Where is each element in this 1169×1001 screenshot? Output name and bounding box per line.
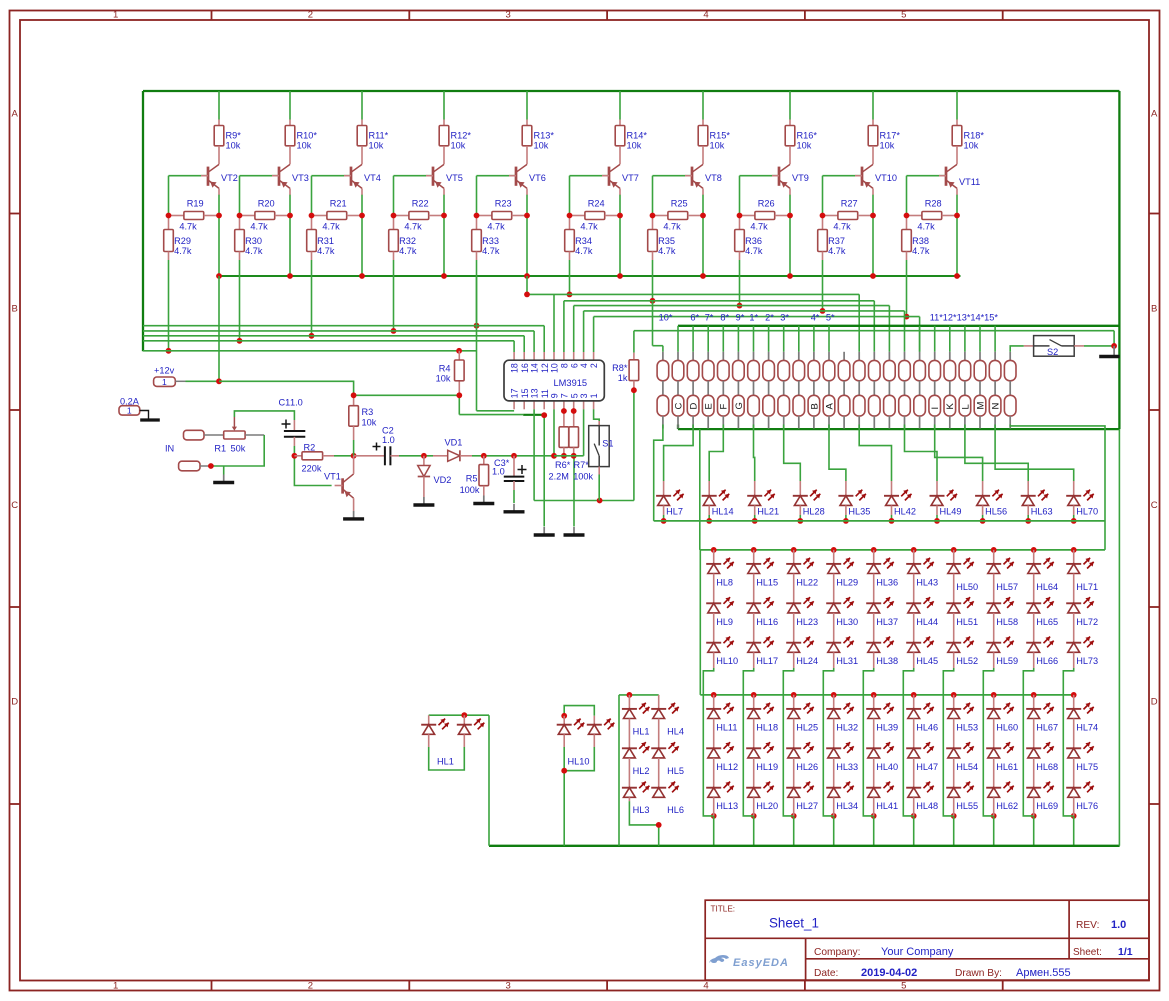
resistor network column 15 — [869, 352, 881, 429]
wire — [458, 351, 460, 396]
svg-text:13: 13 — [530, 388, 540, 398]
wire — [619, 695, 659, 846]
svg-text:2019-04-02: 2019-04-02 — [861, 967, 917, 979]
junction — [661, 518, 667, 524]
svg-text:10k: 10k — [534, 141, 549, 151]
svg-text:HL13: HL13 — [716, 801, 738, 811]
wire — [186, 380, 220, 382]
svg-text:4: 4 — [579, 363, 589, 368]
wire — [905, 425, 938, 482]
svg-text:10k: 10k — [362, 418, 377, 428]
svg-text:R35: R35 — [658, 236, 675, 246]
svg-text:R37: R37 — [828, 236, 845, 246]
svg-text:HL62: HL62 — [996, 801, 1018, 811]
junction — [351, 453, 357, 459]
LED HL51 — [946, 574, 978, 627]
wire — [652, 260, 654, 301]
svg-text:C: C — [673, 403, 684, 410]
svg-text:HL12: HL12 — [716, 762, 738, 772]
LED HL60 — [986, 695, 1018, 733]
svg-text:1: 1 — [589, 393, 599, 398]
wire — [664, 425, 694, 482]
svg-text:Date:: Date: — [814, 968, 838, 979]
svg-text:D: D — [11, 697, 18, 708]
junction — [166, 348, 172, 354]
resistor network column 16 — [884, 352, 896, 429]
svg-text:4.7k: 4.7k — [833, 222, 851, 232]
resistor network column 11 — [808, 352, 820, 429]
ground — [513, 504, 515, 512]
resistor R12 — [439, 120, 471, 165]
LED HL23 — [786, 574, 818, 627]
svg-text:4.7k: 4.7k — [580, 222, 598, 232]
svg-text:9: 9 — [550, 393, 560, 398]
wire — [1023, 550, 1033, 816]
svg-text:HL46: HL46 — [916, 722, 938, 732]
LED HL22 — [786, 550, 818, 588]
wire — [822, 260, 824, 311]
transistor VT9 — [772, 164, 809, 194]
wire — [143, 91, 1119, 429]
svg-text:6: 6 — [569, 363, 579, 368]
svg-text:4.7k: 4.7k — [174, 246, 192, 256]
svg-text:10k: 10k — [964, 141, 979, 151]
svg-text:HL65: HL65 — [1036, 617, 1058, 627]
svg-text:17: 17 — [510, 388, 520, 398]
LED HL71 — [1066, 550, 1098, 592]
junction — [1071, 547, 1077, 819]
LED HL20 — [746, 758, 778, 811]
wire — [311, 260, 313, 336]
junction — [820, 308, 826, 314]
svg-text:Sheet:: Sheet: — [1073, 947, 1102, 958]
resistor R2 — [294, 442, 334, 473]
svg-text:+12v: +12v — [154, 366, 175, 376]
resistor network column 23 — [989, 352, 1001, 429]
wire — [312, 91, 363, 276]
wire — [294, 446, 331, 486]
resistor network column 14 — [853, 352, 865, 429]
svg-text:1.0: 1.0 — [290, 398, 303, 408]
LED HL32 — [826, 695, 858, 733]
capacitor C1 — [279, 398, 306, 447]
LED HL13 — [706, 758, 738, 811]
svg-text:R22: R22 — [412, 198, 429, 208]
svg-text:HL21: HL21 — [757, 507, 779, 517]
svg-text:VT5: VT5 — [446, 173, 463, 183]
svg-text:R11*: R11* — [369, 131, 389, 141]
svg-text:5: 5 — [901, 981, 906, 992]
LED HL21 — [747, 481, 779, 517]
wire — [906, 260, 908, 317]
svg-text:HL40: HL40 — [876, 762, 898, 772]
junction — [951, 547, 957, 819]
LED HL8 — [706, 550, 734, 588]
resistor R13 — [522, 120, 554, 165]
svg-text:HL35: HL35 — [848, 507, 870, 517]
resistor network column 5 — [718, 352, 730, 429]
resistor R25 — [653, 198, 704, 231]
LED HL10 — [557, 716, 585, 747]
svg-text:R24: R24 — [588, 198, 605, 208]
resistor R22 — [394, 198, 445, 231]
svg-text:VT3: VT3 — [292, 173, 309, 183]
svg-text:HL75: HL75 — [1076, 762, 1098, 772]
svg-text:4.7k: 4.7k — [245, 246, 263, 256]
svg-text:REV:: REV: — [1076, 920, 1099, 931]
transistor VT5 — [426, 164, 463, 194]
resistor R27 — [823, 198, 874, 231]
svg-text:HL50: HL50 — [956, 582, 978, 592]
svg-text:R21: R21 — [330, 198, 347, 208]
potentiometer R1 — [214, 417, 264, 454]
svg-text:VT10: VT10 — [875, 173, 897, 183]
ground — [223, 475, 225, 483]
wire — [859, 425, 891, 482]
svg-text:4.7k: 4.7k — [917, 222, 935, 232]
resistor R14 — [615, 120, 647, 165]
wire — [743, 550, 753, 816]
ground — [543, 527, 545, 535]
wire — [564, 409, 574, 411]
svg-text:HL55: HL55 — [956, 801, 978, 811]
LED HL55 — [946, 758, 978, 811]
resistor R28 — [907, 198, 958, 231]
resistor R20 — [240, 198, 291, 231]
svg-text:3*: 3* — [780, 313, 789, 323]
wire — [353, 440, 355, 456]
resistor network column 12 — [823, 352, 835, 429]
svg-text:HL42: HL42 — [894, 507, 916, 517]
svg-text:HL9: HL9 — [716, 617, 733, 627]
svg-text:HL38: HL38 — [876, 656, 898, 666]
resistor network column 1 — [657, 352, 669, 429]
svg-text:B: B — [809, 403, 820, 409]
wire — [739, 260, 741, 306]
wire — [754, 515, 756, 521]
svg-text:10k: 10k — [297, 141, 312, 151]
svg-text:HL19: HL19 — [756, 762, 778, 772]
svg-text:4.7k: 4.7k — [322, 222, 340, 232]
wire — [936, 515, 938, 521]
resistor network column 3 — [687, 352, 699, 429]
svg-text:HL57: HL57 — [996, 582, 1018, 592]
resistor R9 — [214, 120, 241, 165]
wire — [634, 331, 1114, 501]
svg-text:3: 3 — [506, 10, 511, 21]
junction — [650, 298, 656, 304]
svg-text:4.7k: 4.7k — [663, 222, 681, 232]
junction — [843, 518, 849, 524]
svg-text:14: 14 — [530, 363, 540, 373]
svg-text:R38: R38 — [912, 236, 929, 246]
svg-text:1: 1 — [162, 377, 167, 387]
svg-text:4.7k: 4.7k — [750, 222, 768, 232]
svg-text:HL5: HL5 — [667, 766, 684, 776]
svg-text:R33: R33 — [482, 236, 499, 246]
svg-text:5: 5 — [569, 393, 579, 398]
LED HL59 — [986, 613, 1018, 666]
svg-text:F: F — [719, 404, 730, 410]
junction — [309, 213, 365, 279]
fuse 0.2A — [119, 396, 160, 420]
LED HL39 — [866, 695, 898, 733]
wire — [1073, 515, 1075, 521]
svg-text:R29: R29 — [174, 236, 191, 246]
svg-text:A: A — [12, 109, 19, 120]
junction — [391, 213, 447, 279]
svg-text:HL45: HL45 — [916, 656, 938, 666]
svg-text:18: 18 — [510, 363, 520, 373]
LED HL2 — [622, 719, 650, 776]
junction — [456, 348, 462, 354]
svg-text:HL60: HL60 — [996, 722, 1018, 732]
resistor R32 — [389, 216, 417, 261]
LED HL57 — [986, 550, 1018, 592]
svg-text:100k: 100k — [573, 472, 593, 482]
resistor R36 — [735, 216, 763, 261]
junction — [421, 453, 427, 459]
svg-text:VD1: VD1 — [445, 438, 463, 448]
wire — [399, 455, 433, 457]
wire — [393, 260, 395, 331]
wire — [903, 550, 913, 816]
svg-text:HL28: HL28 — [803, 507, 825, 517]
wire — [1010, 346, 1114, 352]
svg-text:HL22: HL22 — [796, 577, 818, 587]
svg-text:4.7k: 4.7k — [399, 246, 417, 256]
svg-text:10k: 10k — [451, 141, 466, 151]
svg-text:R13*: R13* — [534, 131, 555, 141]
resistor R7 — [569, 411, 594, 482]
svg-text:HL70: HL70 — [1076, 507, 1098, 517]
LED HL33 — [826, 719, 858, 772]
transistor VT6 — [509, 164, 546, 194]
svg-text:10k: 10k — [369, 141, 384, 151]
wire — [489, 845, 1120, 847]
svg-text:VT9: VT9 — [792, 173, 809, 183]
junction — [627, 692, 662, 828]
wire — [983, 550, 993, 816]
resistor R18 — [952, 120, 984, 165]
svg-text:1: 1 — [113, 981, 118, 992]
wire — [891, 515, 893, 521]
svg-text:HL68: HL68 — [1036, 762, 1058, 772]
svg-text:1.0: 1.0 — [492, 467, 505, 477]
svg-text:1.0: 1.0 — [382, 435, 395, 445]
svg-text:4.7k: 4.7k — [658, 246, 676, 256]
resistor R5 — [460, 456, 489, 496]
wire — [1063, 550, 1073, 816]
LED HL12 — [706, 719, 738, 772]
svg-text:R12*: R12* — [451, 131, 472, 141]
junction — [1071, 518, 1077, 524]
LED HL69 — [1026, 758, 1058, 811]
svg-text:HL69: HL69 — [1036, 801, 1058, 811]
svg-text:R30: R30 — [245, 236, 262, 246]
svg-text:R32: R32 — [399, 236, 416, 246]
svg-text:1.0: 1.0 — [1111, 919, 1126, 931]
transistor VT3 — [272, 164, 309, 194]
LED HL25 — [786, 695, 818, 733]
svg-text:10k: 10k — [226, 141, 241, 151]
wire — [394, 91, 445, 276]
wire — [658, 694, 660, 696]
svg-text:4.7k: 4.7k — [487, 222, 505, 232]
LED HL11 — [706, 695, 737, 733]
junction — [911, 547, 917, 819]
wire — [472, 455, 554, 457]
svg-text:R8*: R8* — [612, 363, 628, 373]
junction — [820, 213, 876, 279]
LED HL16 — [746, 574, 778, 627]
resistor R24 — [570, 198, 621, 231]
svg-text:VT7: VT7 — [622, 173, 639, 183]
svg-text:HL16: HL16 — [756, 617, 778, 627]
junction — [980, 518, 986, 524]
svg-text:C1: C1 — [279, 398, 291, 408]
svg-text:HL36: HL36 — [876, 577, 898, 587]
wire — [873, 695, 875, 846]
svg-text:HL6: HL6 — [667, 805, 684, 815]
wire — [833, 695, 835, 846]
LED HL56 — [975, 481, 1007, 517]
wire — [513, 490, 515, 503]
resistor R31 — [307, 216, 335, 261]
LED HL6 — [651, 758, 684, 815]
transistor VT1 — [324, 456, 354, 511]
junction — [1031, 547, 1037, 819]
svg-text:G: G — [734, 402, 745, 409]
svg-text:IN: IN — [165, 444, 174, 454]
LED HL48 — [906, 758, 938, 811]
junction — [737, 303, 743, 309]
resistor network column 17 — [899, 352, 911, 429]
junction — [706, 518, 712, 524]
svg-text:3: 3 — [579, 393, 589, 398]
wire — [663, 515, 665, 521]
svg-text:I: I — [930, 407, 941, 410]
svg-text:HL8: HL8 — [716, 577, 733, 587]
wire — [354, 395, 634, 526]
wire — [783, 550, 793, 816]
svg-text:K: K — [945, 403, 956, 410]
svg-text:12: 12 — [540, 363, 550, 373]
svg-text:100k: 100k — [460, 485, 480, 495]
junction — [904, 213, 960, 279]
svg-text:HL23: HL23 — [796, 617, 818, 627]
wire — [211, 411, 295, 475]
svg-text:2.2M: 2.2M — [549, 472, 569, 482]
svg-text:HL41: HL41 — [876, 801, 898, 811]
wire — [823, 550, 833, 816]
svg-text:R14*: R14* — [627, 131, 648, 141]
svg-text:1: 1 — [127, 406, 132, 416]
svg-text:10k: 10k — [627, 141, 642, 151]
LED HL37 — [866, 574, 898, 627]
LED HL53 — [946, 695, 978, 733]
transistor VT2 — [201, 164, 238, 194]
svg-text:HL66: HL66 — [1036, 656, 1058, 666]
resistor network column 20 — [944, 352, 956, 429]
svg-text:Drawn By:: Drawn By: — [955, 968, 1002, 979]
svg-text:2*: 2* — [765, 313, 774, 323]
junction — [208, 463, 214, 469]
svg-text:R20: R20 — [258, 198, 275, 208]
resistor network column 18 — [914, 352, 926, 429]
svg-text:C: C — [11, 500, 18, 511]
resistor R35 — [648, 216, 676, 261]
LED HL58 — [986, 574, 1018, 627]
transistor VT7 — [602, 164, 639, 194]
svg-text:HL59: HL59 — [996, 656, 1018, 666]
resistor R17 — [868, 120, 900, 165]
svg-text:10*: 10* — [659, 313, 673, 323]
junction — [1111, 343, 1117, 349]
LED HL74 — [1066, 695, 1098, 733]
svg-text:7*: 7* — [705, 313, 714, 323]
LED HL49 — [930, 481, 962, 517]
svg-text:R17*: R17* — [880, 131, 901, 141]
LED HL28 — [793, 481, 825, 517]
junction — [934, 518, 940, 524]
svg-text:C: C — [1151, 500, 1158, 511]
wire — [845, 515, 847, 521]
LED HL61 — [986, 719, 1018, 772]
svg-text:R19: R19 — [187, 198, 204, 208]
LED HL62 — [986, 758, 1018, 811]
svg-text:R4: R4 — [439, 364, 451, 374]
LED HL7 — [656, 481, 684, 517]
svg-text:5*: 5* — [826, 313, 835, 323]
junction — [524, 292, 530, 298]
junction — [481, 453, 577, 459]
LED HL5 — [651, 719, 684, 776]
svg-text:VT11: VT11 — [959, 177, 980, 187]
title block — [705, 900, 1149, 980]
svg-text:HL15: HL15 — [756, 577, 778, 587]
svg-text:M: M — [975, 402, 986, 410]
resistor R29 — [164, 216, 192, 261]
svg-text:R2: R2 — [304, 442, 316, 452]
resistor network column 22 — [974, 352, 986, 429]
connector IN — [165, 430, 224, 471]
wire — [965, 425, 1028, 482]
wire — [1118, 429, 1120, 846]
svg-text:A: A — [1151, 109, 1158, 120]
svg-text:4.7k: 4.7k — [575, 246, 593, 256]
svg-text:HL1: HL1 — [437, 757, 454, 767]
junction — [216, 378, 222, 384]
svg-text:R16*: R16* — [797, 131, 818, 141]
svg-text:4*: 4* — [811, 313, 820, 323]
svg-text:HL73: HL73 — [1076, 656, 1098, 666]
junction — [474, 213, 530, 279]
LED HL18 — [746, 695, 778, 733]
capacitor C3 — [492, 456, 527, 490]
wire — [793, 695, 795, 846]
wire — [678, 326, 1119, 429]
svg-text:10k: 10k — [710, 141, 725, 151]
svg-text:R5: R5 — [466, 474, 478, 484]
svg-text:Company:: Company: — [814, 947, 860, 958]
wire — [953, 695, 955, 846]
svg-text:10: 10 — [550, 363, 560, 373]
resistor network column 19 — [929, 352, 941, 429]
wire — [429, 715, 489, 846]
wire — [829, 425, 846, 482]
LED HL42 — [884, 481, 916, 517]
